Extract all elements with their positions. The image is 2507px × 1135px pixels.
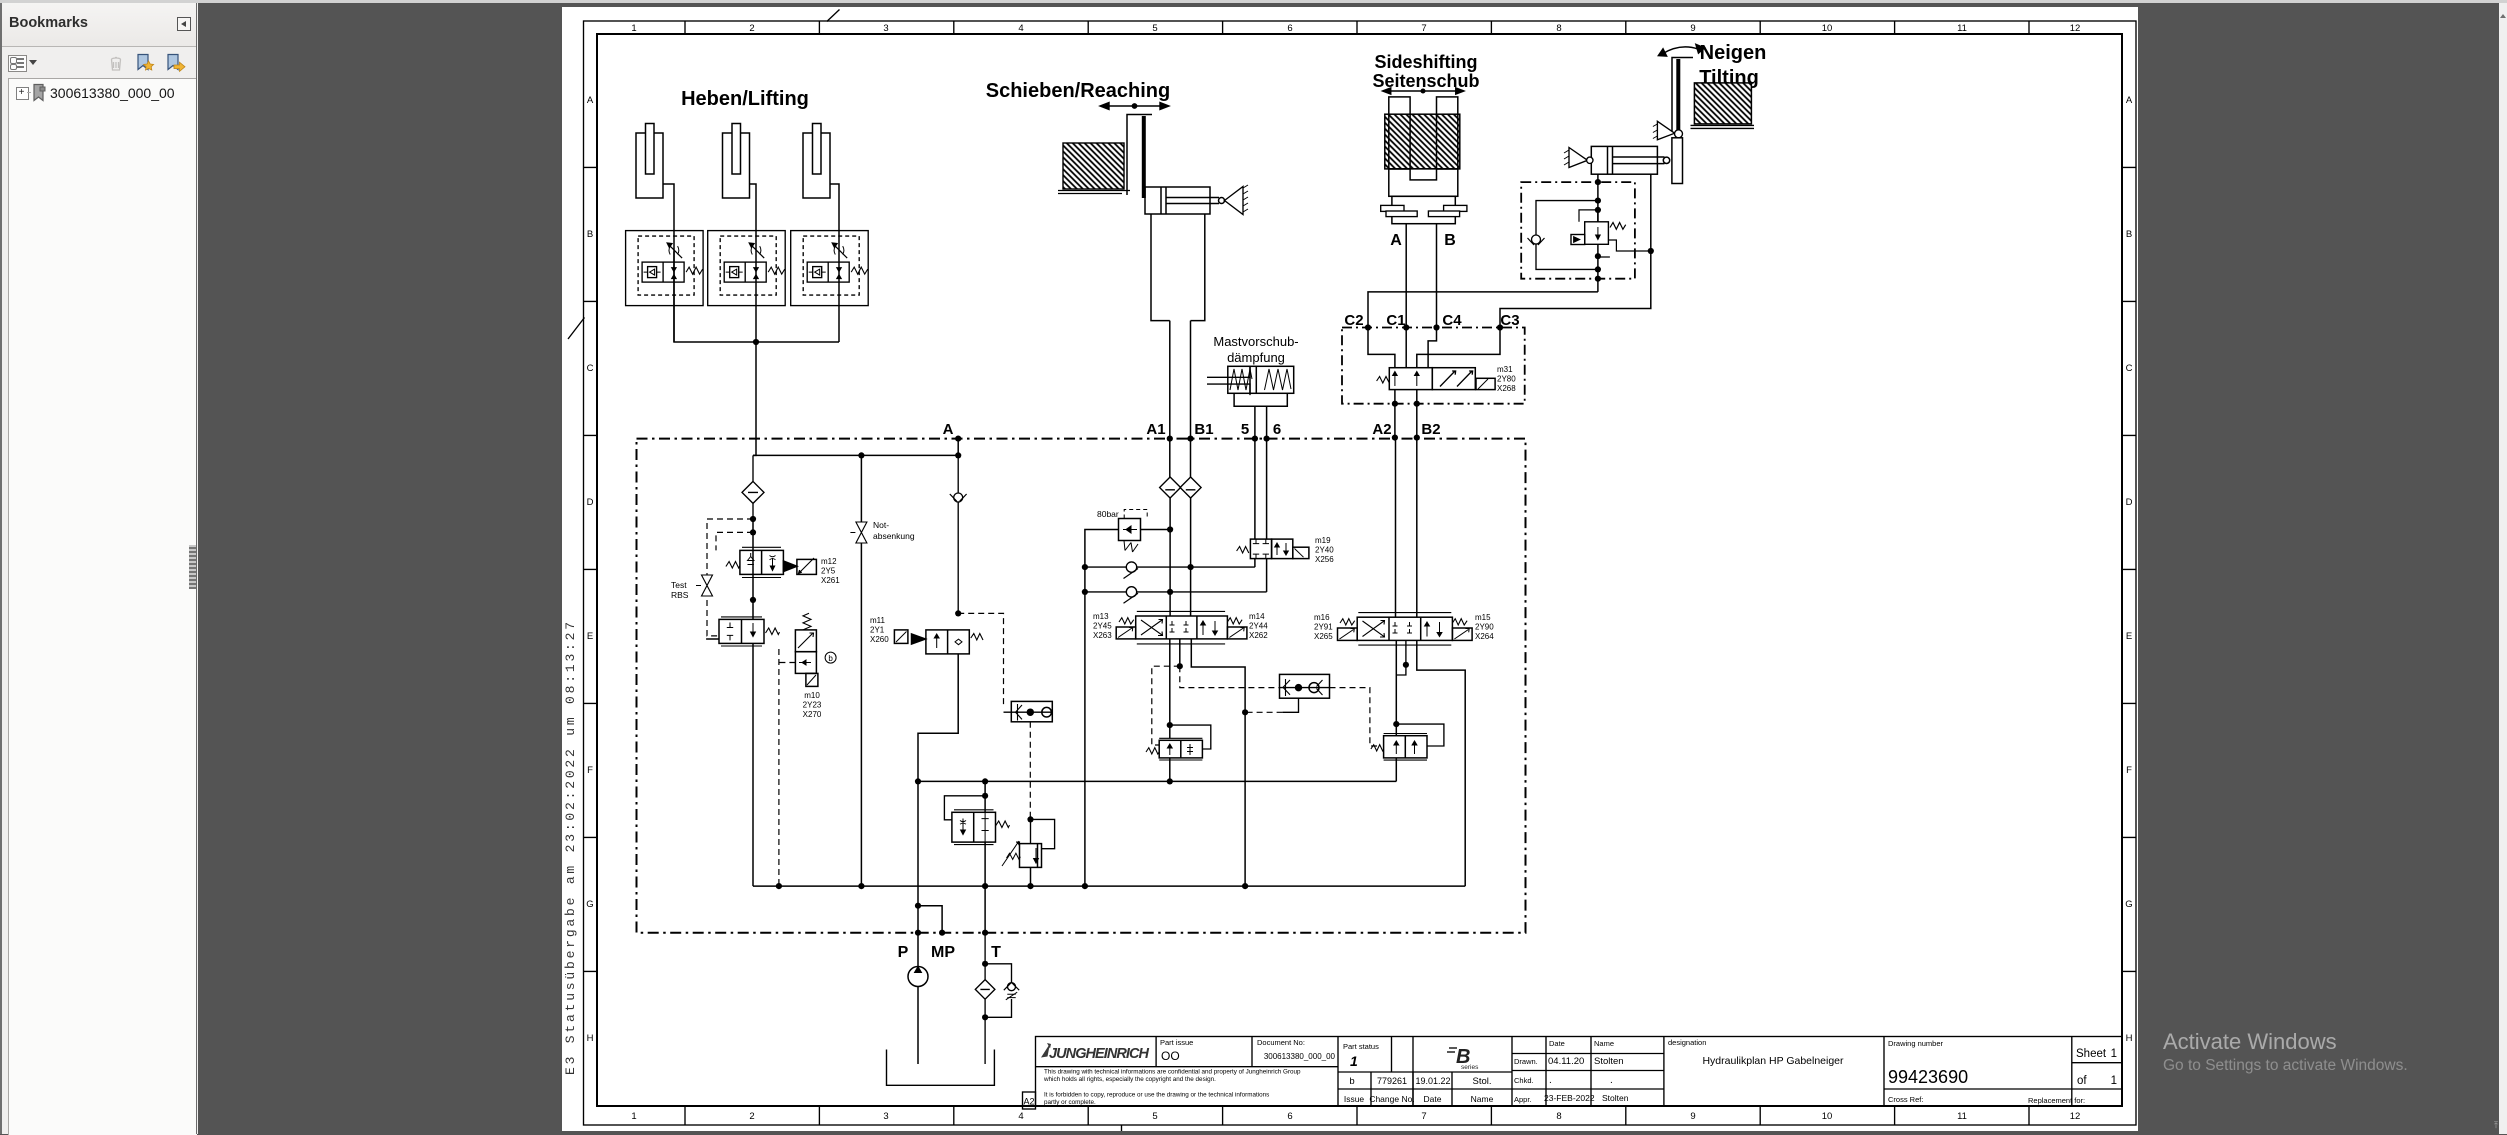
junction counterbalance top [1167, 722, 1173, 728]
svg-text:1: 1 [631, 23, 636, 34]
wire line5 to check1 [1254, 559, 1256, 568]
mast outline [1151, 214, 1205, 321]
pilot dashed m13 left [1152, 666, 1180, 745]
title block [1023, 1037, 2123, 1110]
svg-text:F: F [587, 765, 593, 776]
svg-text:B2: B2 [1421, 421, 1440, 438]
wire cylinder1 to valve1 [663, 184, 674, 231]
svg-text:Stolten: Stolten [1594, 1056, 1624, 1067]
sideshift double arrow [1383, 88, 1464, 94]
confidential small text [1043, 1069, 1301, 1107]
svg-text:H: H [587, 1033, 594, 1044]
junction C3 line pilot [1648, 248, 1654, 254]
svg-text:A: A [587, 95, 594, 106]
wire C2 run (tilt rod side) [1368, 292, 1598, 328]
svg-text:Appr.: Appr. [1514, 1095, 1532, 1104]
svg-text:Name: Name [1594, 1039, 1614, 1048]
wire counterbalance to return bus [1169, 758, 1171, 782]
bookmark arrow icon [164, 52, 186, 74]
sideshift flange right [1428, 205, 1467, 216]
svg-text:m19: m19 [1315, 536, 1331, 545]
valve m11 2/2 solenoid [894, 630, 983, 654]
pilot dashed m11 to shuttle [958, 613, 1003, 706]
filter return [975, 933, 995, 1064]
svg-text:C1: C1 [1386, 312, 1405, 329]
svg-text:Schieben/Reaching: Schieben/Reaching [986, 80, 1171, 102]
junctions drain bus [982, 883, 1034, 889]
tilt cylinder anchor left [1564, 148, 1593, 168]
wire C2 to valve [1368, 328, 1395, 368]
junction shuttle1 pilot [1242, 709, 1248, 715]
svg-text:Issue: Issue [1344, 1094, 1365, 1104]
svg-text:which holds all rights, especi: which holds all rights, especially the c… [1043, 1076, 1216, 1083]
svg-text:99423690: 99423690 [1888, 1067, 1968, 1087]
tilt fork carriage [1672, 58, 1693, 134]
svg-text:RBS: RBS [671, 590, 689, 600]
svg-text:H: H [2126, 1033, 2133, 1044]
junctions tilt block [1595, 179, 1601, 282]
svg-text:Drawn.: Drawn. [1514, 1057, 1538, 1066]
wire sideshift B down to C4 [1436, 224, 1438, 328]
svg-text:4: 4 [1018, 23, 1023, 34]
wire B2 down to valve m15 [1416, 438, 1418, 618]
lowering brake valve block 3 [791, 231, 869, 306]
reach double arrow [1100, 103, 1169, 110]
svg-text:T: T [991, 944, 1001, 961]
svg-text:C3: C3 [1500, 312, 1519, 329]
svg-text:It is forbidden to copy, repro: It is forbidden to copy, reproduce or us… [1044, 1092, 1269, 1099]
junction return bus A1 [1167, 778, 1173, 784]
label m10 2Y23 X270 [803, 691, 822, 719]
lowering brake valve block 2 [708, 231, 786, 306]
wire C3 run (tilt piston side) [1500, 174, 1651, 327]
svg-text:Drawing number: Drawing number [1888, 1039, 1944, 1048]
right letter ticks [2122, 167, 2136, 971]
tank drain bus [753, 885, 1465, 887]
svg-text:Seitenschub: Seitenschub [1372, 71, 1479, 91]
main valve block (dash-dot box) [637, 439, 1526, 933]
wire overcenter valve vertical [1597, 210, 1599, 292]
relief valve 80bar [1085, 510, 1170, 887]
svg-text:12: 12 [2070, 23, 2081, 34]
svg-text:.: . [1549, 1075, 1552, 1086]
right scrollbar [2499, 3, 2507, 1134]
svg-text:B: B [1444, 232, 1456, 249]
svg-text:1: 1 [1350, 1053, 1358, 1069]
svg-text:X265: X265 [1314, 632, 1333, 641]
label m11 2Y1 X260 [870, 616, 889, 644]
label b circle [825, 652, 836, 663]
junction filter top [982, 961, 988, 967]
svg-text:7: 7 [1421, 23, 1426, 34]
sideshift body [1389, 169, 1458, 196]
svg-text:X270: X270 [803, 710, 822, 719]
junctions left drain line [1082, 564, 1088, 889]
wire m31 B2 down [1416, 390, 1418, 438]
tilt check valve bypass [1528, 201, 1598, 270]
wire A2 to counterbalance tilt [1395, 640, 1397, 735]
svg-text:X260: X260 [870, 635, 889, 644]
svg-text:5: 5 [1152, 1111, 1157, 1122]
svg-text:10: 10 [1822, 1111, 1833, 1122]
junction tilt counterbalance top [1393, 721, 1399, 727]
svg-text:2Y45: 2Y45 [1093, 622, 1112, 631]
wire relief to bus [1030, 867, 1032, 886]
valve m10 pilot selector [795, 613, 818, 686]
svg-text:6: 6 [1287, 23, 1292, 34]
bookmark star icon [134, 52, 156, 74]
svg-text:partly or complete.: partly or complete. [1044, 1099, 1096, 1106]
valve m19 2/2 [1237, 539, 1309, 559]
svg-text:X264: X264 [1475, 632, 1494, 641]
svg-text:Replacement for:: Replacement for: [2028, 1096, 2085, 1105]
junction B drain bus [1242, 883, 1248, 889]
bypass check filter [985, 964, 1019, 1018]
svg-text:3: 3 [883, 23, 888, 34]
svg-text:Chkd.: Chkd. [1514, 1076, 1534, 1085]
tilt cylinder [1591, 146, 1669, 174]
tilt arc arrow [1659, 45, 1705, 57]
wire A1 down [1169, 321, 1171, 477]
top light strip [0, 0, 2507, 3]
junctions C ports [1365, 324, 1503, 330]
junction filter bottom [982, 1014, 988, 1020]
junction relief pilot [1027, 816, 1033, 822]
svg-text:Date: Date [1424, 1094, 1442, 1104]
junction check2 A1 [1167, 589, 1173, 595]
Jungheinrich logo [1041, 1043, 1150, 1062]
svg-text:2Y1: 2Y1 [870, 626, 885, 635]
wire valve2 through-line down [753, 231, 756, 456]
svg-text:OO: OO [1161, 1049, 1180, 1063]
fold mark left [568, 318, 585, 340]
pilot tank throttle valve [944, 796, 985, 820]
svg-text:A2: A2 [1372, 421, 1391, 438]
svg-text:m13: m13 [1093, 612, 1109, 621]
svg-text:E3 Statusübergabe am 23:02:202: E3 Statusübergabe am 23:02:2022 um 08:13… [563, 619, 578, 1075]
svg-text:23-FEB-2022: 23-FEB-2022 [1544, 1093, 1595, 1103]
label Test RBS [671, 580, 689, 600]
junctions return line [915, 778, 988, 784]
svg-text:Date: Date [1549, 1039, 1565, 1048]
lowering valve left [706, 617, 779, 646]
wire tilt counterbalance to return [1395, 758, 1397, 782]
svg-text:G: G [586, 899, 593, 910]
frame outer border [584, 21, 2137, 1125]
svg-text:C: C [2126, 363, 2133, 374]
wire B1 down [1190, 321, 1192, 477]
junctions m31 bottom [1392, 401, 1420, 407]
svg-text:9: 9 [1690, 23, 1695, 34]
wire A1 filter to valve [1169, 498, 1171, 616]
svg-text:designation: designation [1668, 1038, 1706, 1047]
svg-text:7: 7 [1421, 1111, 1426, 1122]
wire B2 right down [1417, 640, 1465, 886]
bottom ruler ticks [685, 1106, 2029, 1125]
wire emergency lowering line [860, 455, 862, 886]
svg-text:Stolten: Stolten [1602, 1093, 1629, 1103]
svg-text:5: 5 [1152, 23, 1157, 34]
svg-text:D: D [587, 497, 594, 508]
label m15 2Y90 X264 [1475, 613, 1494, 641]
junctions P MP T ports [915, 903, 988, 936]
svg-text:8: 8 [1556, 23, 1561, 34]
svg-text:absenkung: absenkung [873, 531, 915, 541]
valve m16/m15 proportional 4/3 [1338, 613, 1473, 646]
svg-text:Part status: Part status [1343, 1042, 1379, 1051]
svg-text:6: 6 [1273, 421, 1281, 438]
filter diamond B1 [1180, 477, 1201, 498]
svg-text:2Y90: 2Y90 [1475, 623, 1494, 632]
junction 80bar to A1 [1167, 526, 1173, 532]
tank [887, 1050, 995, 1086]
svg-text:m11: m11 [870, 616, 886, 625]
panel divider grip [196, 3, 197, 1134]
junction emergency bus [858, 883, 864, 889]
wire cylinder2 to valve2 [750, 184, 757, 231]
sideshift fork left [1389, 97, 1410, 169]
svg-text:m14: m14 [1249, 612, 1265, 621]
svg-text:12: 12 [2070, 1111, 2081, 1122]
svg-text:b: b [1349, 1076, 1354, 1087]
junctions filter line [750, 516, 756, 536]
fold mark top [827, 10, 840, 22]
bookmarks panel [0, 3, 198, 1134]
svg-text:Stol.: Stol. [1472, 1076, 1491, 1087]
svg-text:Name: Name [1471, 1094, 1494, 1104]
junction m13 mid [1177, 663, 1183, 669]
junction m11 pilot [955, 610, 961, 616]
svg-text:6: 6 [1287, 1111, 1292, 1122]
valve m12 pressure relief pilot [726, 519, 817, 578]
svg-text:X261: X261 [821, 576, 840, 585]
floor line under tilt load [1691, 125, 1755, 128]
wire tilt cylinder to block [1597, 174, 1599, 222]
floor line under load [1058, 191, 1130, 194]
svg-text:19.01.22: 19.01.22 [1415, 1076, 1450, 1086]
return line bus [918, 780, 1396, 782]
wire m13 A1 below to counterbalance [1169, 639, 1171, 739]
label m16 2Y91 X265 [1314, 613, 1333, 641]
svg-text:C: C [587, 363, 594, 374]
svg-text:of: of [2077, 1075, 2087, 1087]
counterbalance bypass [1170, 725, 1211, 749]
svg-text:m16: m16 [1314, 613, 1330, 622]
label m31 2Y80 X268 [1497, 365, 1516, 393]
wire sideshift A down to C1 [1405, 224, 1407, 328]
svg-text:This drawing with technical in: This drawing with technical informations… [1044, 1069, 1301, 1076]
svg-text:300613380_000_00: 300613380_000_00 [1264, 1052, 1336, 1061]
svg-text:.: . [1610, 1075, 1613, 1086]
wire cylinder3 to valve3 [830, 184, 840, 231]
sideshift flange left [1381, 205, 1418, 216]
svg-text:E: E [2126, 631, 2132, 642]
wire m13 mid port [1179, 639, 1181, 666]
label m19 2Y40 X256 [1315, 536, 1334, 564]
svg-text:G: G [2125, 899, 2132, 910]
distribution line [753, 454, 958, 456]
svg-text:Test: Test [671, 580, 687, 590]
top ruler ticks [685, 21, 2029, 34]
check valve on A line [950, 455, 967, 613]
svg-text:2Y44: 2Y44 [1249, 622, 1268, 631]
reach cylinder [1145, 187, 1225, 214]
junction m12 lower [750, 597, 756, 603]
tilt link bar [1672, 138, 1683, 184]
svg-text:Hydraulikplan HP Gabelneiger: Hydraulikplan HP Gabelneiger [1702, 1055, 1844, 1067]
wire T line [984, 781, 986, 932]
wire MP branch [918, 906, 942, 933]
svg-text:D: D [2126, 497, 2133, 508]
junction m10 pilot bus [776, 883, 782, 889]
wire B1 filter to valve [1190, 498, 1192, 616]
svg-text:Part issue: Part issue [1160, 1038, 1193, 1047]
svg-text:8: 8 [1556, 1111, 1561, 1122]
wire m31 A2 down [1394, 390, 1396, 438]
shuttle valve 1 [1280, 674, 1330, 698]
b series logo [1447, 1046, 1479, 1071]
tilt counterbalance block (dash-dot box) [1521, 182, 1635, 279]
pilot dashed shuttle1 right to m15 block [1330, 688, 1378, 746]
junction lifting bus [753, 339, 759, 345]
svg-text:C2: C2 [1344, 312, 1363, 329]
svg-text:A: A [1390, 232, 1402, 249]
junctions distribution [858, 452, 961, 458]
svg-text:04.11.20: 04.11.20 [1548, 1056, 1584, 1067]
pilot dashed m13 to shuttle1 [1180, 666, 1280, 687]
svg-text:2Y23: 2Y23 [803, 701, 822, 710]
lowering brake valve block 1 [626, 231, 704, 306]
svg-text:JUNGHEINRICH: JUNGHEINRICH [1049, 1046, 1150, 1062]
svg-text:Mastvorschub-: Mastvorschub- [1213, 334, 1298, 349]
svg-text:B: B [587, 229, 593, 240]
sideshift valve block m31 (dash-dot box) [1342, 328, 1525, 404]
test valve RBS [696, 575, 713, 596]
label m12 2Y5 X261 [821, 557, 840, 585]
svg-text:Not-: Not- [873, 520, 889, 530]
counterbalance valve tilt [1371, 734, 1427, 761]
valve m13/m14 proportional 4/3 [1116, 611, 1247, 644]
junction check1 B1 [1188, 564, 1194, 570]
wire m11 to P line [918, 654, 958, 933]
svg-text:X256: X256 [1315, 555, 1334, 564]
pilot shuttle1 bottom [1245, 698, 1298, 713]
wire m12 down [752, 574, 754, 619]
svg-text:779261: 779261 [1377, 1076, 1407, 1086]
reach cylinder clevis anchor [1225, 185, 1249, 215]
sideshift hatched block [1385, 114, 1460, 169]
relief valve tank [1002, 819, 1055, 867]
svg-text:X268: X268 [1497, 384, 1516, 393]
svg-text:E: E [587, 631, 593, 642]
filter suction left [742, 455, 764, 519]
svg-text:Heben/Lifting: Heben/Lifting [681, 88, 809, 110]
wire line 5 [1254, 406, 1256, 539]
sideshift fork right [1437, 97, 1458, 169]
svg-text:5: 5 [1241, 421, 1249, 438]
svg-text:1: 1 [2111, 1075, 2117, 1087]
svg-text:1: 1 [2111, 1048, 2117, 1060]
load block (hatched) reaching [1063, 143, 1124, 189]
svg-text:b: b [828, 654, 833, 663]
left letter ticks [584, 167, 598, 971]
label Not-absenkung [873, 520, 915, 541]
svg-text:Neigen: Neigen [1700, 42, 1767, 64]
svg-text:Sheet: Sheet [2076, 1048, 2107, 1060]
svg-text:A2: A2 [1023, 1097, 1034, 1107]
tank throttle valve [952, 810, 1010, 845]
svg-text:Sideshifting: Sideshifting [1375, 52, 1478, 72]
pilot dashed shuttle2 down [1029, 722, 1031, 820]
svg-text:P: P [898, 944, 909, 961]
wire C4 to valve [1428, 328, 1436, 368]
svg-text:2Y5: 2Y5 [821, 567, 836, 576]
pump [908, 933, 928, 1064]
tilt pivot anchor [1653, 121, 1683, 140]
svg-text:m15: m15 [1475, 613, 1491, 622]
svg-text:dämpfung: dämpfung [1227, 350, 1285, 365]
svg-text:MP: MP [931, 944, 955, 961]
svg-text:B: B [2126, 229, 2132, 240]
svg-text:m10: m10 [804, 691, 820, 700]
shuttle valve 2 [1004, 701, 1053, 721]
wire valve1 through-line down to bus [674, 230, 839, 342]
wire A2 down to valve m16 [1395, 438, 1397, 618]
svg-text:F: F [2126, 765, 2132, 776]
activate windows watermark [2163, 1029, 2337, 1055]
tilt load block (hatched) [1694, 83, 1751, 124]
wire valve3 through-line down [838, 231, 840, 342]
svg-text:m31: m31 [1497, 365, 1513, 374]
check valve PO 1 [1085, 562, 1255, 579]
wire m13 B port right-down [1191, 639, 1245, 886]
svg-text:m12: m12 [821, 557, 837, 566]
check valve PO 2 [1085, 587, 1267, 604]
svg-text:A: A [2126, 95, 2133, 106]
wire m15 pilot jog [1396, 640, 1406, 675]
fold mark bottom [1121, 1125, 1123, 1133]
junctions on box top edge [955, 435, 1420, 442]
label m13 2Y45 X263 [1093, 612, 1112, 640]
wire line6 to check2 [1266, 559, 1268, 592]
lift cylinder 1 [636, 124, 663, 199]
pilot dashed m10 [779, 649, 796, 886]
svg-text:2Y80: 2Y80 [1497, 375, 1516, 384]
svg-text:Change No.: Change No. [1369, 1094, 1414, 1104]
svg-text:B1: B1 [1194, 421, 1213, 438]
svg-text:4: 4 [1018, 1111, 1023, 1122]
junction pilot T [982, 793, 988, 799]
svg-text:3: 3 [883, 1111, 888, 1122]
svg-text:2Y40: 2Y40 [1315, 546, 1334, 555]
counterbalance valve lift [1146, 738, 1202, 760]
mast damping cylinder [1207, 366, 1294, 406]
pilot dashed lines m12 [707, 519, 753, 636]
emergency lowering valve [850, 522, 867, 543]
wire C3 to valve [1417, 328, 1500, 368]
svg-text:A: A [943, 421, 954, 438]
svg-text:Cross Ref:: Cross Ref: [1888, 1095, 1923, 1104]
wire lowering valve down to bus [752, 643, 754, 886]
svg-text:11: 11 [1957, 23, 1967, 34]
svg-text:11: 11 [1957, 1111, 1967, 1122]
svg-text:2: 2 [749, 1111, 754, 1122]
wire line 6 [1266, 406, 1268, 539]
svg-text:2Y91: 2Y91 [1314, 623, 1333, 632]
svg-text:10: 10 [1822, 23, 1833, 34]
counterbalance tilt pilot loop [1396, 724, 1444, 746]
svg-text:X262: X262 [1249, 631, 1268, 640]
